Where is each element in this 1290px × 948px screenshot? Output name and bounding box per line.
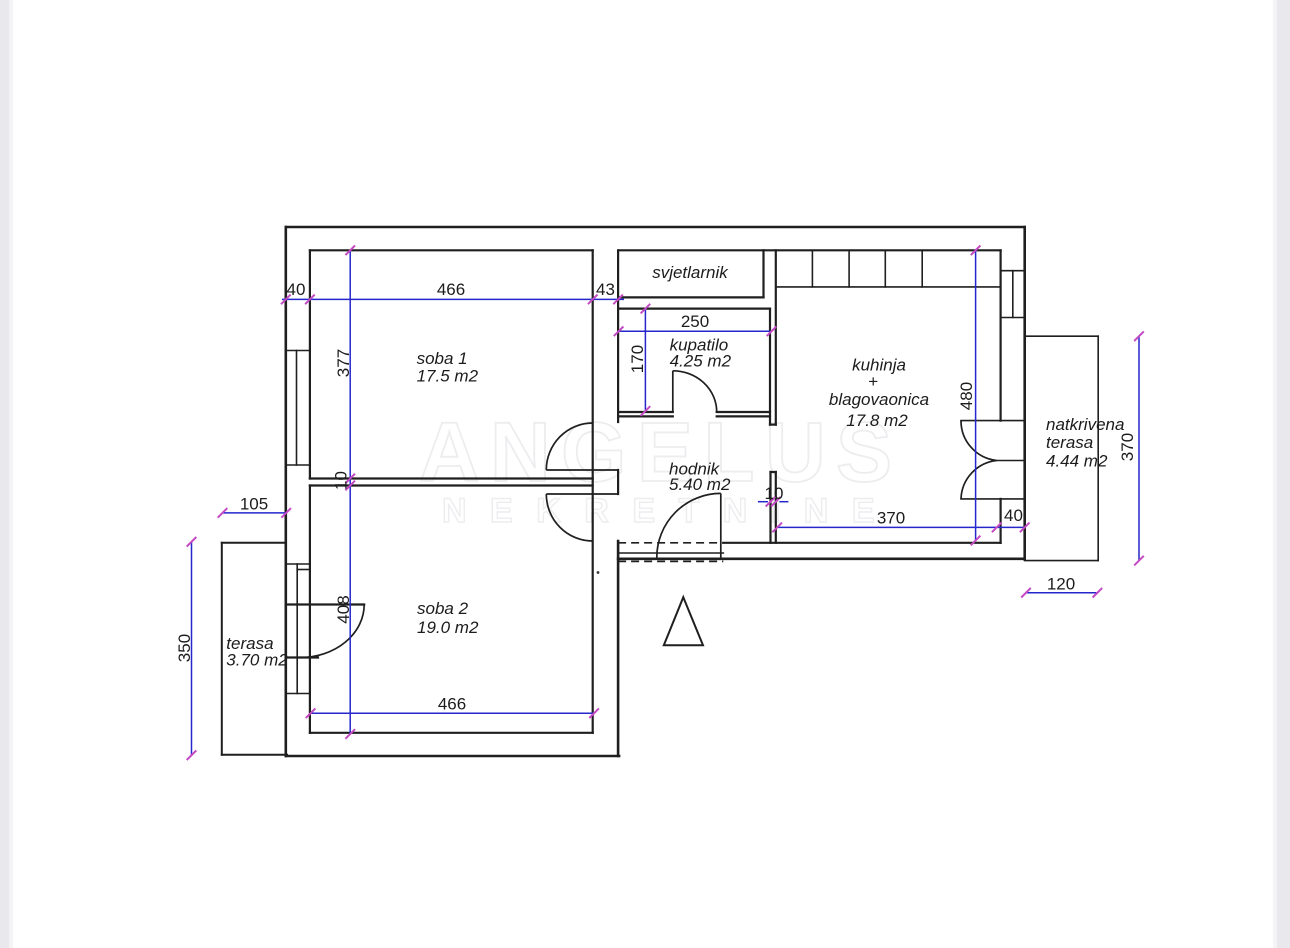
svg-text:105: 105 <box>240 495 268 514</box>
svg-text:17.8 m2: 17.8 m2 <box>846 411 908 430</box>
svg-text:soba 1: soba 1 <box>417 349 468 368</box>
svg-text:350: 350 <box>175 634 194 662</box>
svg-text:120: 120 <box>1047 575 1075 594</box>
svg-text:480: 480 <box>957 382 976 410</box>
svg-text:466: 466 <box>438 695 466 714</box>
svg-text:250: 250 <box>681 312 709 331</box>
svg-text:370: 370 <box>877 509 905 528</box>
svg-text:19.0 m2: 19.0 m2 <box>417 618 479 637</box>
svg-text:10: 10 <box>332 471 351 490</box>
svg-text:4.25 m2: 4.25 m2 <box>670 352 732 371</box>
svg-text:377: 377 <box>334 349 353 377</box>
svg-text:466: 466 <box>437 280 465 299</box>
svg-text:kuhinja: kuhinja <box>852 356 906 375</box>
svg-text:4.44 m2: 4.44 m2 <box>1046 452 1108 471</box>
svg-text:17.5 m2: 17.5 m2 <box>417 367 479 386</box>
svg-text:3.70 m2: 3.70 m2 <box>226 651 288 670</box>
svg-text:5.40 m2: 5.40 m2 <box>669 475 731 494</box>
svg-text:soba 2: soba 2 <box>417 599 469 618</box>
svg-text:40: 40 <box>1004 506 1023 525</box>
svg-text:svjetlarnik: svjetlarnik <box>652 263 729 282</box>
svg-text:40: 40 <box>287 280 306 299</box>
svg-text:blagovaonica: blagovaonica <box>829 390 929 409</box>
svg-text:terasa: terasa <box>1046 433 1093 452</box>
svg-text:370: 370 <box>1118 433 1137 461</box>
svg-text:170: 170 <box>628 345 647 373</box>
svg-text:+: + <box>868 372 878 391</box>
svg-text:43: 43 <box>596 280 615 299</box>
svg-text:10: 10 <box>765 484 784 503</box>
svg-text:natkrivena: natkrivena <box>1046 415 1124 434</box>
svg-text:408: 408 <box>334 595 353 623</box>
